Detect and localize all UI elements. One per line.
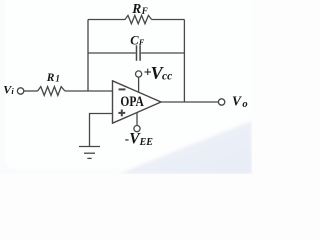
terminal Vo [218, 99, 224, 105]
svg-text:R: R [46, 72, 55, 84]
svg-text:EE: EE [139, 137, 154, 148]
terminal Vi [17, 88, 23, 94]
wire [141, 52, 185, 54]
wire [161, 101, 218, 103]
label CF [130, 33, 145, 47]
power -VEE [136, 113, 138, 126]
svg-text:cc: cc [162, 71, 172, 83]
wire [152, 19, 185, 21]
ground [79, 147, 100, 159]
svg-text:V: V [232, 93, 242, 108]
label Vi [3, 82, 14, 96]
label RF [131, 1, 148, 16]
label OPA [120, 94, 144, 110]
svg-text:o: o [242, 99, 247, 110]
pin plus [118, 110, 125, 117]
wire [88, 19, 125, 21]
svg-text:F: F [141, 6, 148, 16]
svg-text:1: 1 [55, 73, 60, 83]
label -VEE [125, 130, 153, 147]
op-amp U1 [113, 81, 162, 123]
resistor R1 [38, 87, 65, 96]
wire [90, 114, 113, 147]
label R1 [46, 72, 60, 84]
svg-text:R: R [131, 1, 141, 16]
label Vo [232, 93, 248, 109]
pin minus [119, 88, 126, 90]
label +Vcc [144, 63, 172, 83]
svg-text:OPA: OPA [120, 94, 144, 110]
wire [87, 20, 89, 92]
wire [88, 52, 136, 54]
wire [65, 90, 113, 92]
wire [183, 20, 185, 103]
resistor RF [125, 15, 152, 23]
power +Vcc [138, 77, 140, 92]
capacitor CF [137, 45, 141, 61]
svg-text:F: F [138, 38, 145, 47]
wire [24, 90, 38, 92]
